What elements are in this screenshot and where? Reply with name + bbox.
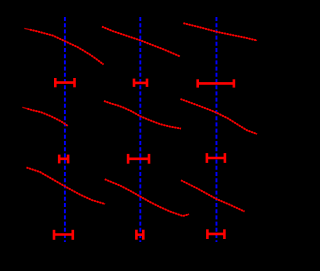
red curve row2 col1 [22, 107, 68, 126]
blue dashed vertical line column 2 [139, 17, 141, 242]
error bar row1 col1 [55, 78, 74, 87]
error bar row3 col3 [207, 229, 224, 239]
error bar row3 col2 [136, 230, 143, 240]
red curve row1 col1 [24, 28, 103, 64]
error bar row2 col1 [59, 155, 68, 164]
red curve row1 col2 [102, 27, 180, 57]
error bar row2 col2 [128, 154, 149, 164]
error bar row2 col3 [207, 153, 225, 163]
red curve row2 col2 [104, 101, 181, 129]
red curve row1 col3 [183, 23, 257, 40]
red curve row3 col2 [105, 179, 189, 216]
blue dashed vertical line column 1 [64, 17, 66, 242]
error bar row1 col2 [134, 79, 147, 87]
red curve row2 col3 [181, 99, 258, 134]
blue dashed vertical line column 3 [215, 17, 217, 242]
error bar row1 col3 [198, 79, 234, 87]
red curve row3 col3 [181, 180, 245, 211]
red curve row3 col1 [27, 168, 106, 205]
error bar row3 col1 [54, 230, 73, 240]
